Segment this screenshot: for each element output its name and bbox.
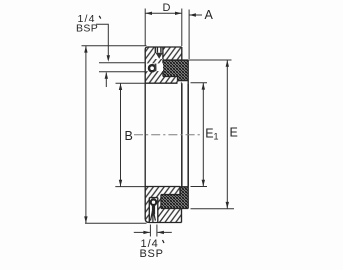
dimension A extension line (188, 10, 190, 60)
left unlabeled dim line (85, 46, 87, 223)
top port up-arrow tail (105, 73, 107, 88)
dimension A leader (189, 14, 202, 16)
top port drill cone (156, 53, 163, 59)
dimension D extension lines (145, 9, 182, 47)
dimension E1 line (202, 83, 204, 187)
labels (125, 2, 238, 143)
bottom port right arrow (157, 231, 164, 234)
gland outline top (163, 60, 188, 83)
bottom port left arrow (143, 231, 150, 234)
E bottom arrow (226, 202, 229, 209)
dimension E extension lines (188, 60, 234, 209)
svg-text:A: A (205, 8, 214, 22)
top port up arrow (105, 72, 108, 79)
gland mid silhouette (187, 83, 189, 187)
dimension B line (120, 83, 122, 186)
centre line (134, 134, 201, 136)
top port dim lines (99, 63, 145, 72)
left dim top arrow (84, 46, 87, 53)
flange plate lower section (hatched) (145, 187, 181, 223)
B bottom arrow (119, 180, 122, 187)
top inch tick (99, 16, 101, 19)
dimension E line (226, 60, 228, 209)
left dim bottom arrow (84, 216, 87, 223)
gland block lower (dark hatch) (161, 195, 188, 209)
svg-text:D: D (163, 2, 171, 14)
svg-text:BSP: BSP (140, 248, 164, 260)
bore bottom edge (145, 186, 180, 188)
BSP top leader (96, 24, 108, 59)
top slot edges (155, 47, 163, 60)
outlines (145, 47, 188, 223)
D left arrow (145, 12, 152, 15)
top port slot (white) (155, 46, 163, 59)
flange plate upper section (hatched) (145, 47, 182, 83)
bottom port seal ring (151, 199, 157, 205)
dimension B extension lines (115, 83, 145, 186)
svg-text:E: E (230, 126, 238, 140)
bottom port cone legs (151, 209, 156, 222)
D right arrow (175, 12, 182, 15)
B top arrow (119, 83, 122, 90)
dimension E1 extension lines (191, 83, 208, 187)
left unlabeled dim extension lines (82, 46, 147, 223)
top port thread marks (157, 48, 161, 53)
E top arrow (226, 60, 229, 67)
gland outline bottom (161, 187, 188, 209)
svg-text:BSP: BSP (76, 23, 98, 35)
E1 bottom arrow (202, 180, 205, 187)
dimension D line (145, 12, 182, 14)
flange right face (181, 47, 183, 60)
bottom port ticks (150, 225, 157, 237)
arrowheads (84, 12, 229, 235)
bottom port arrow lines (134, 231, 172, 233)
flange outline left face (145, 47, 182, 83)
top channel seal ring (149, 65, 155, 71)
E1 top arrow (202, 83, 205, 90)
bore top edge (145, 82, 177, 84)
A arrow (189, 13, 196, 16)
top side channel (white) (146, 63, 163, 71)
gland block upper (dark hatch) (163, 60, 188, 77)
svg-text:B: B (125, 129, 133, 143)
bottom slot edges (149, 198, 158, 223)
BSP top leader arrow (107, 55, 110, 62)
bottom inch tick (163, 240, 165, 243)
bottom port slot (white) (149, 198, 158, 223)
